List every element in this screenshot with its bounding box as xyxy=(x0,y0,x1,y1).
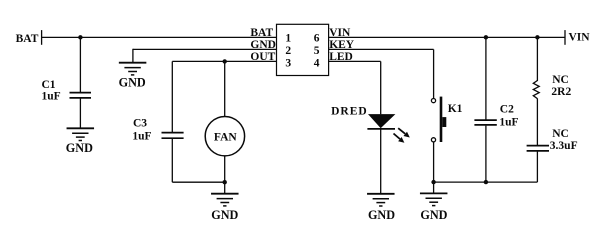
svg-text:VIN: VIN xyxy=(329,27,351,39)
svg-text:NC: NC xyxy=(552,128,569,140)
svg-text:C2: C2 xyxy=(500,103,514,115)
svg-text:1uF: 1uF xyxy=(132,130,151,142)
svg-text:GND: GND xyxy=(119,75,146,89)
svg-text:GND: GND xyxy=(250,39,276,51)
svg-text:K1: K1 xyxy=(448,103,463,115)
svg-text:5: 5 xyxy=(314,45,320,57)
svg-text:FAN: FAN xyxy=(214,132,237,144)
svg-text:KEY: KEY xyxy=(329,39,355,51)
svg-text:3: 3 xyxy=(285,57,291,69)
svg-text:C3: C3 xyxy=(133,118,147,130)
svg-text:NC: NC xyxy=(552,74,569,86)
svg-text:3.3uF: 3.3uF xyxy=(550,140,578,152)
svg-text:GND: GND xyxy=(420,208,447,222)
svg-text:VIN: VIN xyxy=(569,32,591,44)
svg-text:6: 6 xyxy=(314,33,320,45)
svg-text:GND: GND xyxy=(66,141,93,155)
svg-text:2R2: 2R2 xyxy=(551,86,571,98)
svg-text:1uF: 1uF xyxy=(42,91,61,103)
svg-text:4: 4 xyxy=(314,57,320,69)
svg-text:DRED: DRED xyxy=(331,105,368,117)
svg-text:BAT: BAT xyxy=(250,27,273,39)
svg-text:LED: LED xyxy=(329,51,353,63)
svg-text:GND: GND xyxy=(211,208,238,222)
svg-text:2: 2 xyxy=(285,45,291,57)
svg-text:BAT: BAT xyxy=(16,33,39,45)
svg-text:OUT: OUT xyxy=(250,51,275,63)
svg-text:GND: GND xyxy=(368,208,395,222)
svg-text:1uF: 1uF xyxy=(499,117,518,129)
svg-text:1: 1 xyxy=(285,33,291,45)
svg-text:C1: C1 xyxy=(42,79,56,91)
